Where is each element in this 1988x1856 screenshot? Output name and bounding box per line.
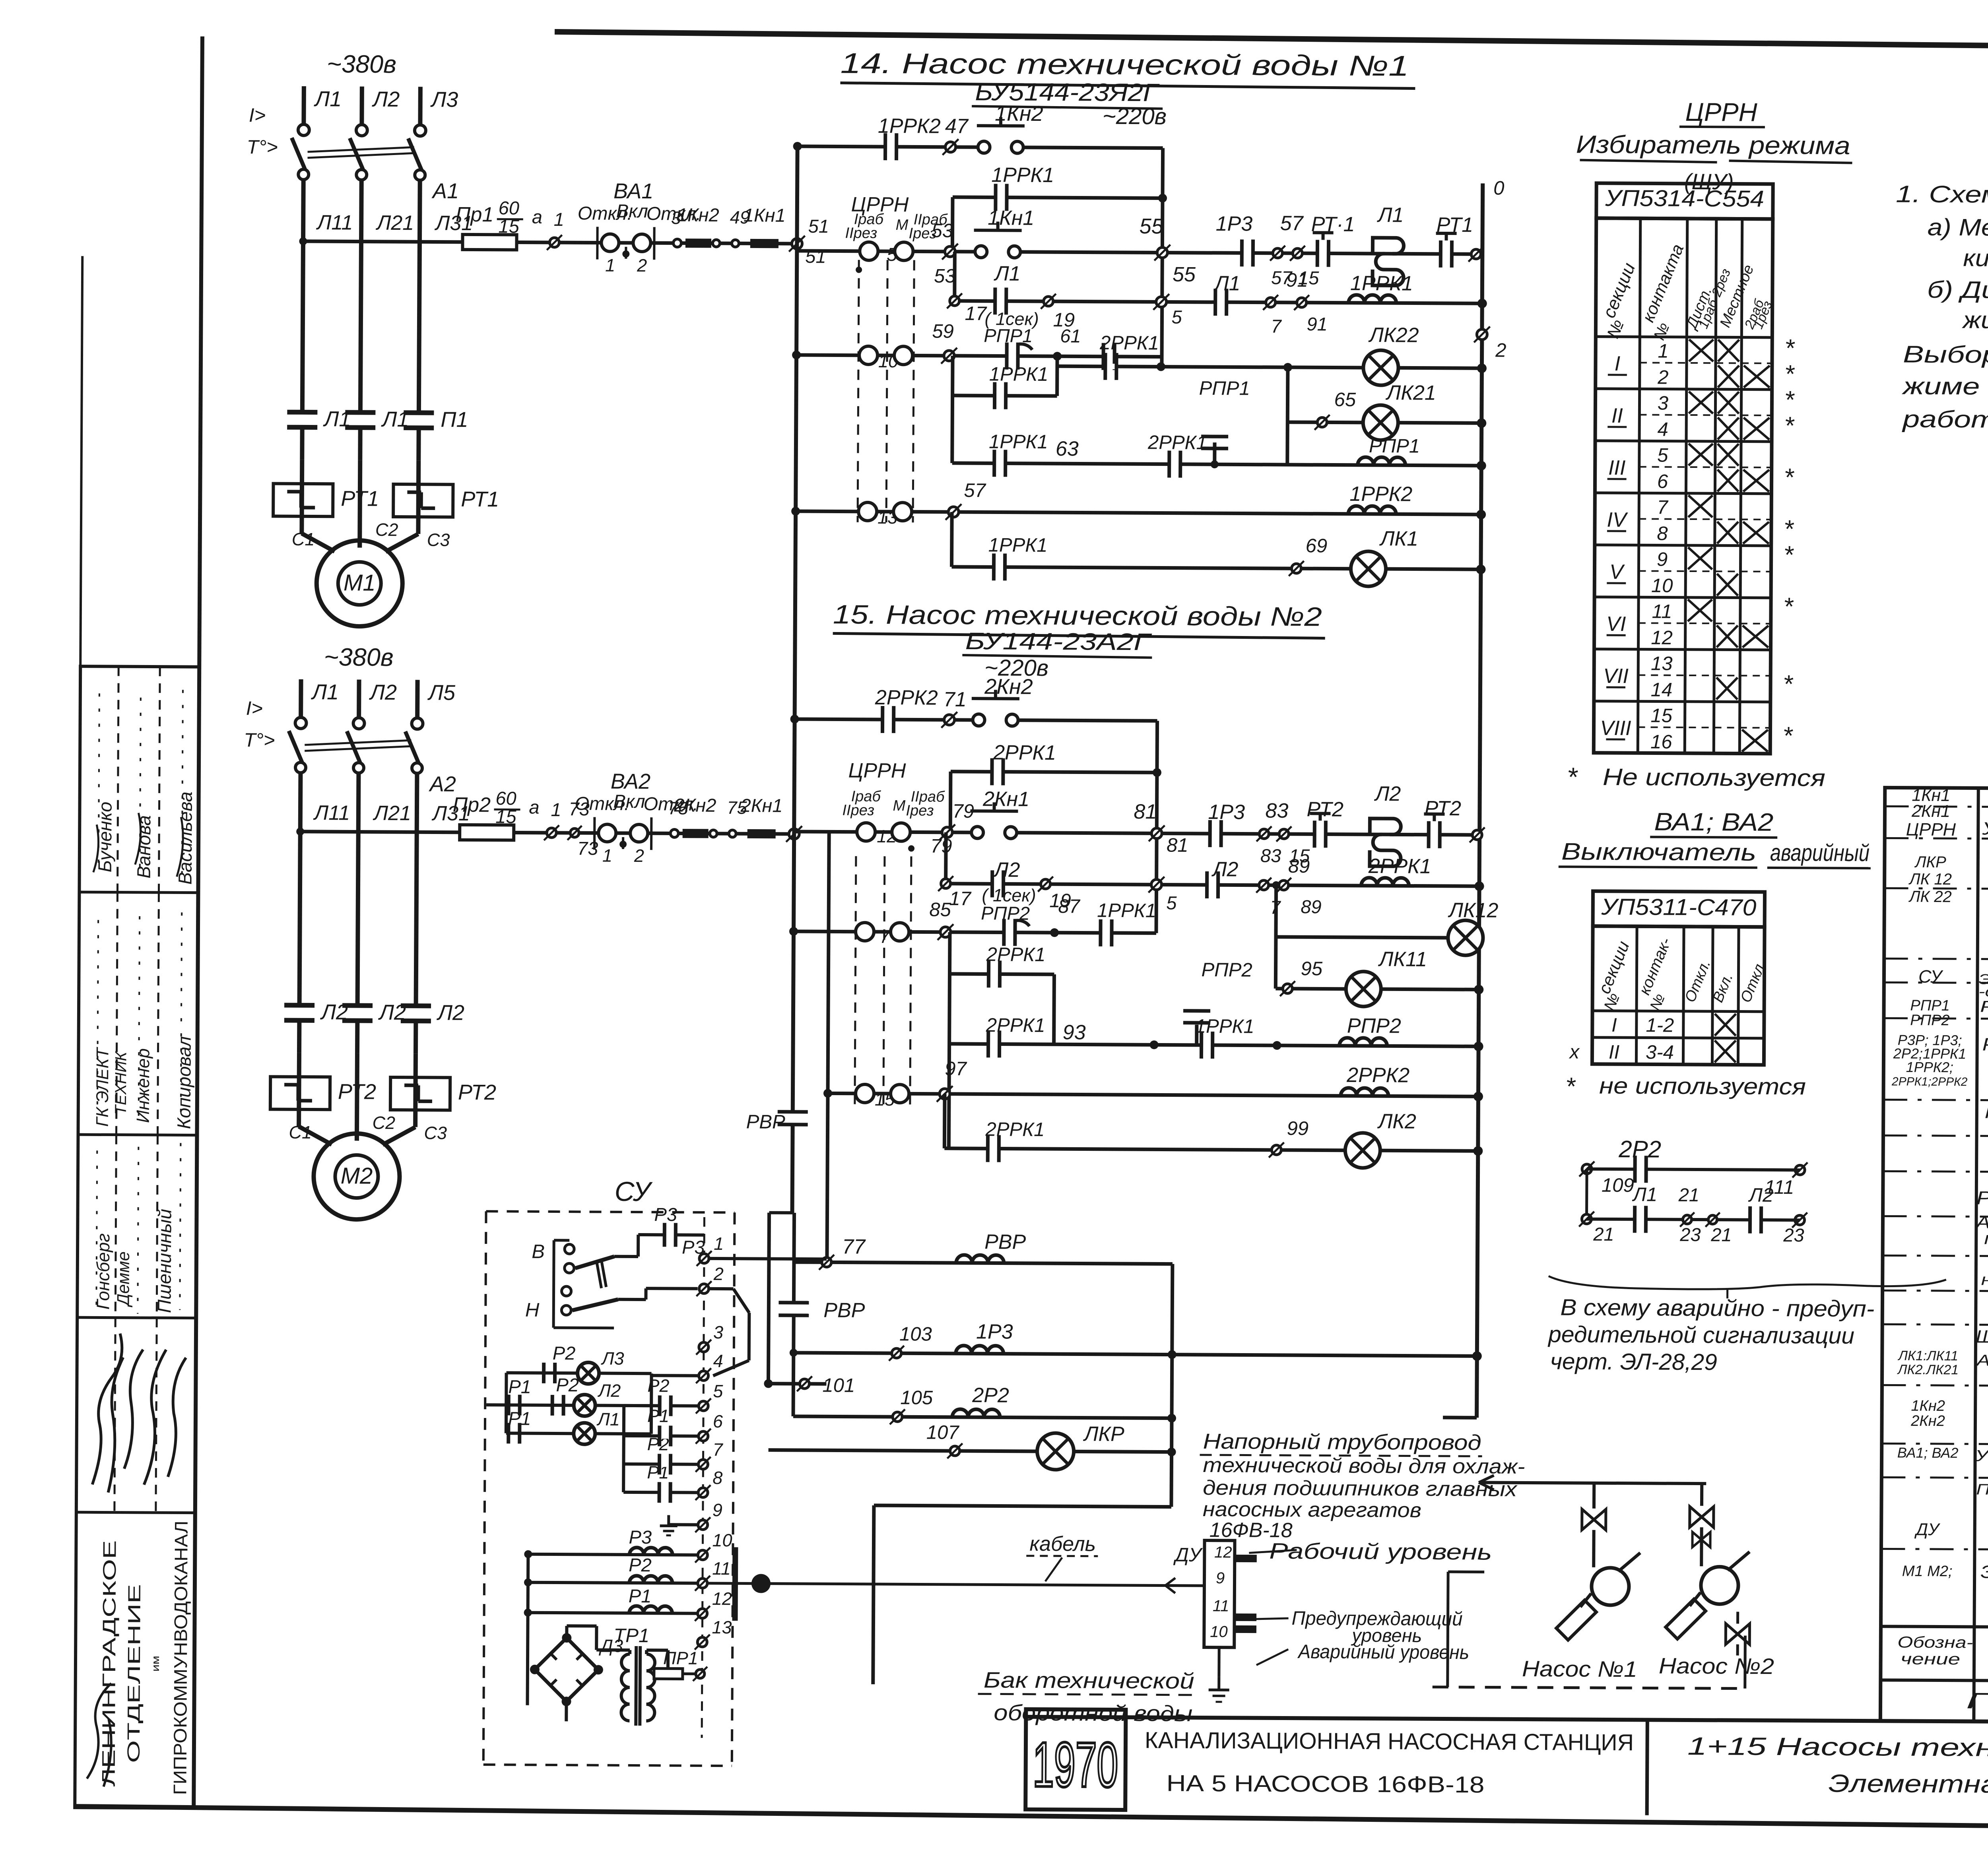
svg-text:*: *: [1784, 386, 1795, 414]
svg-text:T°>: T°>: [247, 136, 278, 158]
svg-text:83: 83: [1265, 799, 1288, 822]
svg-text:21: 21: [1710, 1224, 1732, 1245]
svg-text:I: I: [1615, 352, 1621, 375]
svg-text:П1: П1: [441, 408, 468, 432]
svg-text:2Кн1: 2Кн1: [1911, 802, 1950, 821]
svg-text:1Р3: 1Р3: [1216, 212, 1253, 235]
svg-text:6: 6: [1657, 471, 1668, 493]
svg-text:2Кн1: 2Кн1: [982, 787, 1029, 811]
svg-text:им: им: [149, 1656, 161, 1672]
svg-text:Бак технической: Бак технической: [984, 1667, 1194, 1693]
svg-text:С2: С2: [375, 520, 398, 540]
svg-text:Л1: Л1: [1632, 1184, 1657, 1205]
svg-text:ТЕХНИК: ТЕХНИК: [112, 1051, 130, 1115]
svg-text:12: 12: [1651, 627, 1673, 648]
svg-text:Насос №2: Насос №2: [1659, 1653, 1774, 1679]
svg-text:1Кн2: 1Кн2: [677, 204, 719, 225]
svg-text:47: 47: [945, 115, 969, 138]
svg-text:Выбор вида управления по н: Выбор вида управления по насосам в задан…: [1903, 341, 1988, 371]
svg-text:ЦРРН: ЦРРН: [1685, 97, 1757, 127]
svg-text:11: 11: [712, 1558, 731, 1579]
svg-text:1: 1: [554, 209, 564, 230]
svg-text:93: 93: [1063, 1021, 1086, 1044]
svg-text:59: 59: [932, 321, 954, 342]
svg-text:кабель: кабель: [1029, 1532, 1096, 1556]
svg-text:53: 53: [934, 266, 956, 287]
svg-text:14. Насос технической воды: 14. Насос технической воды №1: [840, 47, 1409, 82]
svg-text:б) Дистанционное-сблокированно: б) Дистанционное-сблокированное ( постоя…: [1927, 276, 1988, 306]
svg-text:ВА1; ВА2: ВА1; ВА2: [1654, 808, 1773, 836]
svg-text:х: х: [1569, 1041, 1580, 1063]
svg-text:109: 109: [1602, 1175, 1634, 1196]
svg-text:РВР: РВР: [823, 1299, 865, 1322]
svg-text:II: II: [1611, 404, 1623, 427]
svg-text:На блоке управления: На блоке управления: [1985, 1103, 1988, 1123]
svg-text:жиме осуществляется избират: жиме осуществляется избирателем режима: [1901, 373, 1988, 403]
svg-text:УП5314-С554: УП5314-С554: [1605, 185, 1764, 212]
svg-text:3-4: 3-4: [1646, 1041, 1674, 1063]
svg-text:Р2: Р2: [553, 1342, 576, 1363]
svg-text:Копировал: Копировал: [173, 1036, 195, 1129]
svg-text:Рабочий уровень: Рабочий уровень: [1269, 1538, 1492, 1565]
svg-text:Элементная схема: Элементная схема: [1828, 1770, 1988, 1799]
svg-text:Р1: Р1: [508, 1376, 531, 1397]
svg-text:ЦРРН: ЦРРН: [848, 759, 906, 783]
svg-text:10: 10: [1651, 575, 1673, 596]
svg-text:ВА2: ВА2: [611, 770, 651, 793]
svg-text:2РРК1: 2РРК1: [986, 944, 1046, 966]
svg-text:53: 53: [931, 220, 953, 242]
svg-text:1Кн2: 1Кн2: [1911, 1398, 1945, 1414]
svg-text:Л2: Л2: [993, 858, 1020, 881]
svg-text:Вкл: Вкл: [616, 200, 648, 221]
svg-text:Iрез: Iрез: [906, 802, 934, 819]
svg-text:СУ: СУ: [615, 1176, 653, 1207]
svg-text:15: 15: [1650, 705, 1673, 726]
svg-text:~380в: ~380в: [324, 643, 394, 671]
svg-text:ЛКР: ЛКР: [1914, 853, 1946, 871]
svg-text:1РРК1: 1РРК1: [989, 431, 1048, 453]
svg-text:С2: С2: [373, 1113, 396, 1133]
svg-text:91: 91: [1307, 313, 1328, 334]
svg-text:IIрез: IIрез: [842, 802, 874, 819]
svg-text:редительной сигнализации: редительной сигнализации: [1547, 1321, 1854, 1349]
svg-text:14: 14: [1651, 679, 1673, 700]
svg-text:ЛК2.ЛК21: ЛК2.ЛК21: [1897, 1362, 1959, 1378]
svg-text:Пр1: Пр1: [456, 203, 494, 226]
svg-text:*: *: [1783, 670, 1794, 698]
svg-text:12: 12: [712, 1588, 732, 1609]
svg-text:2: 2: [634, 846, 644, 866]
svg-text:ЛК12: ЛК12: [1448, 899, 1498, 922]
svg-text:VIII: VIII: [1600, 717, 1631, 740]
svg-text:2Р2: 2Р2: [1618, 1136, 1661, 1163]
svg-text:мата А3124-3МТ: мата А3124-3МТ: [1984, 1229, 1988, 1249]
svg-text:чение: чение: [1901, 1650, 1960, 1668]
svg-text:101: 101: [822, 1375, 855, 1396]
svg-text:2: 2: [713, 1264, 724, 1284]
svg-text:VI: VI: [1606, 613, 1626, 636]
svg-text:Щит станции управления: Щит станции управления: [1976, 1326, 1988, 1348]
svg-text:Выключатель: Выключатель: [1561, 838, 1756, 865]
svg-text:ОТДЕЛЕНИЕ: ОТДЕЛЕНИЕ: [124, 1584, 144, 1763]
svg-text:Напорный трубопровод: Напорный трубопровод: [1203, 1429, 1481, 1455]
svg-text:55: 55: [1140, 214, 1164, 238]
svg-text:РТ1: РТ1: [461, 487, 499, 511]
svg-text:1: 1: [714, 1233, 724, 1254]
svg-text:1+15 Насосы технической воды: 1+15 Насосы технической воды: [1687, 1732, 1988, 1763]
svg-text:Л11: Л11: [316, 211, 353, 234]
svg-text:Насос №1: Насос №1: [1522, 1656, 1637, 1681]
svg-text:89: 89: [1301, 896, 1322, 917]
svg-text:*: *: [1783, 541, 1794, 569]
svg-text:7: 7: [1271, 316, 1282, 337]
svg-text:2РРК1: 2РРК1: [986, 1014, 1045, 1036]
svg-text:*: *: [1783, 593, 1794, 621]
svg-text:РТ2: РТ2: [1307, 798, 1343, 821]
svg-text:1970: 1970: [1033, 1729, 1118, 1800]
svg-text:2: 2: [1657, 367, 1669, 388]
svg-text:0: 0: [1493, 178, 1505, 199]
svg-text:21: 21: [1678, 1184, 1700, 1205]
svg-text:Л1: Л1: [994, 262, 1021, 285]
svg-text:I: I: [1611, 1014, 1617, 1036]
svg-text:11: 11: [1213, 1597, 1229, 1615]
svg-text:М1: М1: [344, 570, 376, 595]
svg-text:*: *: [1784, 334, 1795, 362]
svg-text:2Р2: 2Р2: [972, 1384, 1009, 1407]
svg-text:оборотной воды: оборотной воды: [994, 1700, 1192, 1726]
svg-text:Л2: Л2: [372, 87, 400, 111]
svg-text:Инженер: Инженер: [133, 1048, 153, 1123]
svg-text:РПР2: РПР2: [1347, 1014, 1401, 1038]
svg-text:69: 69: [1306, 535, 1328, 557]
svg-text:С3: С3: [424, 1123, 447, 1143]
svg-text:2Кн2: 2Кн2: [674, 794, 716, 816]
svg-text:Реле электромагнит-: Реле электромагнит-: [1982, 1034, 1988, 1056]
svg-text:Р2: Р2: [629, 1554, 652, 1575]
svg-text:1РРК1: 1РРК1: [1097, 900, 1156, 922]
svg-text:81: 81: [1167, 835, 1188, 856]
svg-text:не используется: не используется: [1599, 1073, 1806, 1100]
svg-text:Демме: Демме: [114, 1251, 133, 1307]
svg-text:3: 3: [1658, 393, 1669, 414]
svg-text:2РРК1: 2РРК1: [985, 1119, 1044, 1140]
svg-text:ГИПРОКОММУНВОДОКАНАЛ: ГИПРОКОММУНВОДОКАНАЛ: [169, 1520, 191, 1795]
svg-text:57: 57: [1280, 212, 1304, 235]
svg-text:аварийный: аварийный: [1770, 839, 1870, 866]
svg-text:РТ1,РТ2, Реле тепловое: РТ1,РТ2, Реле тепловое: [1976, 1187, 1988, 1209]
svg-text:7: 7: [1657, 497, 1668, 518]
svg-text:РВР: РВР: [746, 1111, 786, 1133]
svg-text:Ванова: Ванова: [133, 815, 155, 879]
svg-text:2: 2: [1495, 340, 1507, 361]
svg-text:3: 3: [713, 1322, 723, 1342]
svg-text:КАНАЛИЗАЦИОННАЯ НАСОСНАЯ СТ: КАНАЛИЗАЦИОННАЯ НАСОСНАЯ СТАНЦИЯ: [1145, 1727, 1634, 1755]
svg-text:1РРК2: 1РРК2: [878, 114, 941, 138]
svg-text:УП5311-С470: УП5311-С470: [1601, 894, 1756, 921]
svg-text:Перечень электрооборудования: Перечень электрооборудования: [1966, 1688, 1988, 1716]
svg-text:1Р3: 1Р3: [976, 1320, 1013, 1343]
svg-text:а) Местное- несблокированное (: а) Местное- несблокированное ( для опроб…: [1928, 214, 1988, 244]
svg-text:РТ2: РТ2: [1424, 797, 1461, 820]
svg-text:Д3: Д3: [598, 1636, 623, 1656]
svg-text:103: 103: [899, 1323, 932, 1345]
svg-text:6: 6: [713, 1411, 723, 1431]
svg-text:Л2: Л2: [437, 1001, 464, 1025]
svg-text:65: 65: [1334, 389, 1356, 411]
svg-text:1Кн1: 1Кн1: [744, 204, 786, 226]
svg-text:Л1: Л1: [311, 680, 339, 704]
svg-text:ЛК22: ЛК22: [1368, 324, 1419, 347]
svg-text:*: *: [1565, 1072, 1576, 1100]
svg-text:1: 1: [602, 846, 612, 866]
svg-text:2РРК1: 2РРК1: [1099, 332, 1159, 354]
svg-text:81: 81: [1134, 800, 1157, 823]
svg-text:23: 23: [1679, 1224, 1701, 1245]
svg-text:II: II: [1609, 1041, 1620, 1063]
svg-text:ЦРРН: ЦРРН: [1906, 819, 1956, 840]
svg-text:Л21: Л21: [373, 802, 411, 825]
svg-text:10: 10: [1210, 1623, 1228, 1641]
svg-text:4: 4: [713, 1351, 723, 1371]
svg-text:VII: VII: [1603, 665, 1629, 688]
svg-text:1-2: 1-2: [1646, 1014, 1674, 1036]
svg-text:М2: М2: [341, 1163, 373, 1189]
svg-text:ЛК1:ЛК11: ЛК1:ЛК11: [1898, 1348, 1959, 1364]
svg-text:ЛК21: ЛК21: [1385, 381, 1436, 405]
svg-text:Л21: Л21: [376, 211, 414, 235]
svg-text:2Кн2: 2Кн2: [984, 675, 1033, 699]
svg-text:технической воды для охлаж-: технической воды для охлаж-: [1203, 1454, 1525, 1478]
svg-text:105: 105: [900, 1387, 933, 1408]
svg-text:85: 85: [929, 899, 951, 921]
svg-text:*: *: [1567, 762, 1578, 792]
svg-text:91: 91: [1286, 270, 1308, 291]
svg-text:Л2: Л2: [597, 1381, 621, 1401]
svg-text:ВА1: ВА1: [613, 179, 654, 203]
svg-text:99: 99: [1287, 1118, 1309, 1139]
svg-text:на блоке управления: на блоке управления: [1981, 1271, 1988, 1290]
svg-text:61: 61: [1060, 325, 1081, 346]
svg-text:Л2: Л2: [1748, 1185, 1773, 1206]
svg-text:Пост местного управлен.: Пост местного управлен.: [1976, 1481, 1988, 1499]
svg-text:М1 М2;: М1 М2;: [1902, 1563, 1953, 1580]
svg-text:1РРК2;: 1РРК2;: [1906, 1059, 1953, 1076]
svg-text:Л2: Л2: [1211, 858, 1239, 881]
svg-text:I>: I>: [249, 105, 266, 126]
svg-text:2РРК2: 2РРК2: [1346, 1064, 1409, 1087]
svg-text:1: 1: [605, 255, 615, 275]
svg-text:7: 7: [713, 1439, 724, 1460]
svg-text:17: 17: [949, 888, 972, 910]
svg-text:Р3: Р3: [654, 1204, 677, 1225]
svg-text:а: а: [529, 797, 539, 818]
svg-text:5: 5: [1171, 306, 1182, 328]
svg-text:ЛК2: ЛК2: [1377, 1110, 1417, 1133]
svg-text:РПР2: РПР2: [1910, 1012, 1950, 1029]
svg-text:1РРК1: 1РРК1: [991, 163, 1054, 187]
svg-text:13: 13: [712, 1617, 732, 1637]
svg-text:М: М: [896, 217, 909, 233]
svg-text:5: 5: [1657, 445, 1668, 466]
svg-text:Л1: Л1: [314, 87, 342, 111]
svg-text:Избиратель режима: Избиратель режима: [1576, 131, 1850, 160]
svg-text:III: III: [1608, 456, 1626, 479]
svg-text:1. Схемой предусматривается: 1. Схемой предусматривается два вида упр…: [1896, 180, 1988, 211]
svg-text:жим работы): жим работы): [1961, 306, 1988, 334]
svg-text:БУ144-23А2Г: БУ144-23А2Г: [965, 628, 1152, 655]
svg-text:T°>: T°>: [244, 729, 275, 751]
svg-text:Л3: Л3: [601, 1348, 624, 1369]
svg-text:16: 16: [1650, 731, 1673, 752]
svg-text:21: 21: [1593, 1224, 1614, 1245]
svg-text:А1: А1: [431, 179, 459, 203]
svg-text:1РРК1: 1РРК1: [988, 534, 1048, 556]
svg-text:107: 107: [926, 1422, 960, 1443]
svg-text:Л2: Л2: [369, 681, 397, 704]
svg-text:13: 13: [1651, 653, 1673, 674]
svg-text:ДУ: ДУ: [1914, 1520, 1941, 1539]
svg-text:ВА1; ВА2: ВА1; ВА2: [1897, 1445, 1959, 1461]
svg-text:ЛКР: ЛКР: [1083, 1423, 1125, 1446]
svg-text:*: *: [1784, 360, 1795, 388]
svg-text:Арматура для сигналь-: Арматура для сигналь-: [1976, 1352, 1988, 1370]
svg-text:57: 57: [964, 480, 986, 501]
svg-text:ЛК1: ЛК1: [1379, 527, 1419, 550]
svg-text:5: 5: [713, 1381, 723, 1401]
svg-text:95: 95: [1301, 958, 1323, 979]
svg-text:дения подшипников главных: дения подшипников главных: [1203, 1476, 1518, 1501]
svg-text:9: 9: [1657, 549, 1668, 570]
svg-text:Л1: Л1: [596, 1409, 620, 1429]
svg-text:ЛЕНИНГРАДСКОЕ: ЛЕНИНГРАДСКОЕ: [98, 1540, 120, 1786]
svg-text:5: 5: [1166, 892, 1177, 913]
svg-text:9: 9: [1216, 1569, 1225, 1587]
svg-text:РВР: РВР: [984, 1230, 1026, 1254]
svg-text:2РРК1;2РРК2: 2РРК1;2РРК2: [1891, 1075, 1968, 1088]
svg-text:*: *: [1784, 464, 1794, 491]
svg-text:С3: С3: [427, 529, 450, 550]
svg-text:А2: А2: [429, 772, 456, 796]
svg-text:51: 51: [805, 246, 826, 267]
svg-text:71: 71: [944, 688, 967, 711]
svg-text:Обозна-: Обозна-: [1897, 1634, 1973, 1652]
svg-text:*: *: [1784, 412, 1795, 440]
svg-text:15. Насос технической воды: 15. Насос технической воды №2: [833, 599, 1322, 632]
svg-text:Реле времени пневма-: Реле времени пневма-: [1980, 998, 1988, 1017]
svg-text:9: 9: [712, 1500, 722, 1520]
svg-text:63: 63: [1056, 437, 1079, 460]
svg-text:ЛК 12: ЛК 12: [1908, 871, 1952, 888]
svg-text:89: 89: [1288, 855, 1310, 877]
svg-text:*: *: [1782, 722, 1793, 750]
svg-text:51: 51: [808, 215, 829, 237]
svg-text:НА 5 НАСОСОВ 16ФВ-18: НА 5 НАСОСОВ 16ФВ-18: [1166, 1771, 1484, 1798]
svg-text:Аварийный уровень: Аварийный уровень: [1297, 1641, 1469, 1663]
svg-text:Л11: Л11: [313, 801, 350, 824]
svg-text:77: 77: [842, 1235, 866, 1259]
svg-text:2РРК1: 2РРК1: [1147, 432, 1207, 454]
svg-text:ЛК 22: ЛК 22: [1908, 888, 1952, 906]
svg-text:17: 17: [965, 303, 987, 324]
svg-text:ДУ: ДУ: [1173, 1544, 1203, 1566]
svg-text:Вкл: Вкл: [613, 791, 645, 812]
svg-text:87: 87: [1058, 896, 1081, 917]
svg-text:V: V: [1609, 560, 1625, 584]
svg-text:11: 11: [1652, 601, 1672, 622]
svg-text:Не используется: Не используется: [1603, 764, 1825, 791]
svg-text:ГК ЭЛЕКТ: ГК ЭЛЕКТ: [93, 1047, 113, 1127]
svg-text:Л2: Л2: [1374, 782, 1401, 805]
svg-text:2Кн2: 2Кн2: [1910, 1413, 1945, 1429]
svg-text:РТ2: РТ2: [458, 1080, 496, 1104]
svg-text:1Р3: 1Р3: [1208, 801, 1245, 824]
svg-text:1: 1: [551, 799, 561, 820]
svg-text:М: М: [893, 797, 905, 814]
svg-text:РПР2: РПР2: [1201, 959, 1252, 981]
svg-text:а: а: [532, 206, 542, 227]
svg-text:1РРК2: 1РРК2: [1349, 483, 1412, 506]
svg-text:Р1: Р1: [629, 1585, 652, 1606]
svg-text:Пр2: Пр2: [452, 793, 491, 816]
svg-text:16ФВ-18: 16ФВ-18: [1209, 1519, 1293, 1542]
svg-text:В: В: [532, 1241, 545, 1263]
svg-text:Л3: Л3: [430, 87, 458, 111]
svg-text:черт. ЭЛ-28,29: черт. ЭЛ-28,29: [1550, 1348, 1717, 1375]
svg-text:Л5: Л5: [427, 681, 456, 704]
svg-text:83: 83: [1260, 845, 1281, 866]
svg-text:12: 12: [1214, 1544, 1232, 1561]
svg-text:Н: Н: [525, 1299, 540, 1321]
svg-text:Р2: Р2: [556, 1374, 579, 1395]
svg-text:работы насосов „ЦРРН": работы насосов „ЦРРН": [1902, 406, 1988, 434]
svg-text:1: 1: [1658, 341, 1669, 362]
svg-text:8: 8: [712, 1468, 722, 1488]
svg-text:4: 4: [1657, 419, 1668, 440]
svg-text:1РРК1: 1РРК1: [1195, 1016, 1254, 1038]
svg-text:55: 55: [1173, 263, 1196, 286]
svg-text:ки и ремонта механизма).: ки и ремонта механизма).: [1963, 244, 1988, 273]
svg-text:2Кн1: 2Кн1: [740, 795, 782, 816]
svg-text:~380в: ~380в: [327, 50, 396, 78]
svg-text:ЛК11: ЛК11: [1378, 948, 1427, 971]
svg-text:В схему аварийно - предуп-: В схему аварийно - предуп-: [1560, 1294, 1874, 1322]
svg-text:*: *: [1784, 515, 1794, 543]
svg-text:Л1: Л1: [1377, 204, 1404, 227]
svg-text:10: 10: [712, 1530, 732, 1550]
svg-text:I>: I>: [246, 698, 263, 719]
svg-text:Универсальный переключ.: Универсальный переключ.: [1982, 818, 1988, 840]
svg-text:Р3: Р3: [629, 1526, 652, 1548]
svg-text:8: 8: [1657, 523, 1668, 545]
svg-text:2: 2: [637, 255, 647, 275]
svg-text:Электродвигатель: Электродвигатель: [1980, 1562, 1988, 1583]
svg-text:IIрез: IIрез: [845, 225, 877, 242]
svg-text:IV: IV: [1607, 508, 1628, 531]
svg-text:РПР1: РПР1: [1199, 378, 1250, 400]
svg-text:2РРК2: 2РРК2: [875, 686, 938, 710]
